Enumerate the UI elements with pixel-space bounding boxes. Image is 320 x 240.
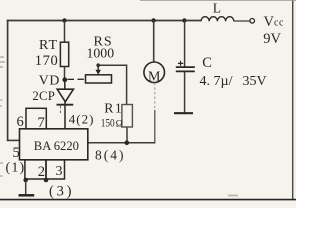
svg-text:C: C [202, 55, 212, 71]
svg-text:cc: cc [274, 18, 284, 29]
svg-text:VD: VD [39, 72, 60, 87]
wire: node A to diode anode [64, 80, 66, 90]
node: R1 to pin8 junction [125, 141, 130, 146]
scan artifacts left edge [0, 57, 5, 67]
svg-text:BA 6220: BA 6220 [34, 139, 79, 153]
node A: RT/VD/RS junction [62, 77, 67, 82]
svg-text:5: 5 [13, 145, 20, 161]
svg-text:1000: 1000 [87, 45, 115, 60]
pin box 7 [26, 108, 46, 129]
svg-text:M: M [148, 69, 161, 84]
diode VD body [57, 89, 73, 102]
diode VD cathode bar [57, 104, 74, 106]
IC U1 BA6220 body [20, 129, 88, 160]
svg-text:Ω: Ω [116, 119, 123, 129]
svg-text:(1): (1) [6, 161, 26, 176]
svg-text:4. 7µ/: 4. 7µ/ [200, 74, 233, 89]
dashed tick near pin4 label [59, 105, 61, 113]
wire: left rail [7, 20, 9, 142]
capacitor C leads [184, 21, 186, 67]
svg-text:3: 3 [56, 164, 63, 179]
pin box 2 [25, 160, 46, 179]
wire: motor bottom lead (faint) [154, 83, 156, 111]
wire: diode cathode to IC pin 4 [64, 102, 66, 129]
svg-text:2CP: 2CP [32, 89, 55, 103]
wire: RT top lead [64, 21, 66, 43]
wire: pin 8(4) rail [88, 142, 155, 144]
wire: L to Vcc terminal [234, 20, 250, 22]
svg-text:L: L [213, 0, 221, 15]
photo right border [292, 0, 294, 200]
node: pin2/3 junction [44, 178, 49, 183]
wire: RT bottom lead [64, 67, 66, 81]
pin box 3 [46, 160, 65, 179]
resistor RT body [60, 42, 68, 66]
terminal Vcc [250, 19, 255, 24]
potentiometer wiper arrow [97, 65, 99, 70]
node: wiper corner [96, 63, 100, 67]
wire: top rail [7, 20, 201, 22]
svg-text:(3): (3) [49, 184, 74, 200]
svg-text:170: 170 [35, 53, 59, 69]
svg-text:8(4): 8(4) [95, 148, 126, 163]
resistor R1 body [122, 105, 132, 128]
photo top faint edge [140, 0, 296, 2]
node: motor branch junction [151, 18, 155, 22]
svg-text:4(2): 4(2) [69, 111, 95, 126]
node: capacitor branch junction [182, 18, 186, 22]
svg-text:150: 150 [101, 115, 115, 129]
node: pin2 ground junction [23, 178, 28, 183]
inductor L [201, 17, 234, 22]
svg-text:35V: 35V [243, 74, 267, 89]
wire: motor top lead [153, 21, 155, 63]
polarity plus [178, 61, 183, 66]
node: RT branch junction [62, 18, 66, 22]
wire: dashed to RS left terminal [68, 78, 86, 80]
ground under C [174, 112, 193, 114]
svg-text:2: 2 [38, 164, 45, 180]
photo bottom border [0, 199, 296, 201]
wire: wiper to R1 [98, 65, 126, 105]
wire: left rail to IC pin 5 [8, 139, 20, 141]
svg-text:9V: 9V [263, 31, 281, 47]
svg-text:R1: R1 [104, 100, 123, 115]
wire: R1 bottom lead [126, 128, 128, 144]
motor M [144, 62, 165, 83]
capacitor C plates [176, 66, 195, 68]
svg-text:V: V [264, 14, 275, 30]
svg-text:7: 7 [38, 115, 45, 131]
potentiometer RS body [86, 75, 112, 83]
ground [25, 180, 27, 194]
svg-text:RT: RT [39, 38, 58, 53]
svg-text:6: 6 [17, 114, 24, 130]
